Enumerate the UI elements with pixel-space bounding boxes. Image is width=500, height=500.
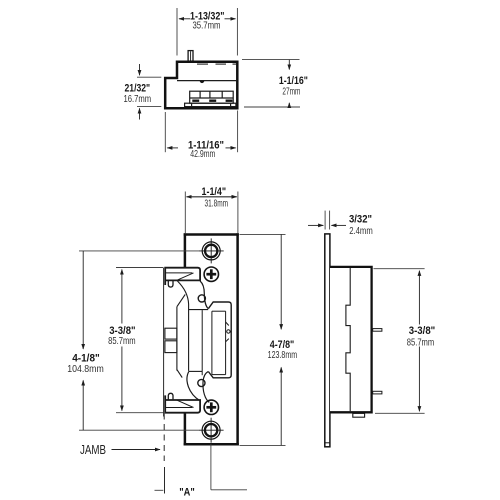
dim 3/32 extension lines xyxy=(325,211,330,230)
dim A line segments xyxy=(155,489,248,492)
bottom horn curve right xyxy=(203,372,209,403)
top horn curve right xyxy=(200,281,208,309)
dim 1-1/4 extension lines xyxy=(185,192,238,234)
top view bump on inner line xyxy=(200,81,205,83)
svg-text:42.9mm: 42.9mm xyxy=(190,149,215,160)
tabs xyxy=(165,328,177,339)
svg-text:123.8mm: 123.8mm xyxy=(268,350,298,361)
top view body outline xyxy=(165,62,237,109)
dim 1-1/4 line with arrows xyxy=(187,196,237,198)
dim 3-3/8 left extension lines xyxy=(116,268,164,413)
top outer screw xyxy=(199,238,224,263)
JAMB arrow xyxy=(112,449,161,451)
dim 3-3/8 side extension lines xyxy=(374,269,425,414)
svg-text:"A": "A" xyxy=(179,487,195,499)
jamb solid lower line xyxy=(164,467,166,494)
svg-text:3-3/8": 3-3/8" xyxy=(409,325,436,337)
latch notch details xyxy=(226,322,229,342)
top horn curve left xyxy=(177,281,209,402)
side body box xyxy=(330,267,372,412)
top view inner step line xyxy=(177,80,236,82)
faceplate xyxy=(185,235,238,445)
jamb dashed centerline xyxy=(163,414,165,462)
svg-text:1-1/4": 1-1/4" xyxy=(202,186,227,198)
svg-text:35.7mm: 35.7mm xyxy=(193,21,221,32)
svg-text:3/32": 3/32" xyxy=(349,214,372,226)
svg-text:16.7mm: 16.7mm xyxy=(124,94,152,105)
top column chamfer xyxy=(177,294,185,306)
dim 1-13/32 extension lines xyxy=(177,8,237,56)
dim 1-13/32 arrows xyxy=(179,18,236,20)
top view pin xyxy=(188,51,193,62)
dim 21/32 arrows xyxy=(139,64,141,120)
side faceplate bottom tip line xyxy=(325,442,330,444)
bottom lip (mirror of top lip) xyxy=(165,393,200,412)
side body stepped inner line xyxy=(346,268,350,411)
dim 1-1/16 extension lines xyxy=(242,60,300,107)
top latch circle xyxy=(198,295,205,302)
top lip group xyxy=(165,268,200,287)
dim 4-7/8 line and arrows (flank text) xyxy=(280,234,282,445)
keeper face lines xyxy=(225,311,227,374)
bottom inner screw xyxy=(204,400,218,414)
keeper outline xyxy=(208,302,231,378)
bottom latch circle xyxy=(198,379,205,386)
dim 3-3/8 left line and arrows xyxy=(121,270,123,411)
side pin upper xyxy=(373,329,382,332)
keeper left long line xyxy=(201,310,203,375)
dim 3-3/8 side line and arrows xyxy=(418,271,420,412)
top view base plate xyxy=(185,103,236,106)
top cavity floor xyxy=(189,309,209,311)
svg-text:104.8mm: 104.8mm xyxy=(67,364,104,375)
side bottom tab xyxy=(353,413,365,417)
dim 1-11/16 extension lines xyxy=(165,111,237,153)
top inner screw xyxy=(204,267,218,281)
bottom cavity floor xyxy=(189,370,203,372)
svg-text:31.8mm: 31.8mm xyxy=(205,198,229,209)
dim 1-11/16 arrows xyxy=(167,147,236,149)
svg-text:27mm: 27mm xyxy=(282,86,300,97)
top view keeper block xyxy=(190,91,234,103)
front body left edge xyxy=(163,268,165,417)
svg-text:4-1/8": 4-1/8" xyxy=(72,352,100,364)
svg-text:85.7mm: 85.7mm xyxy=(108,336,136,347)
side pin lower xyxy=(373,391,382,394)
dim 1-1/16 arrows xyxy=(288,60,290,107)
top view hidden dashes under top edge xyxy=(197,63,236,65)
dim 3/32 arrows xyxy=(308,224,346,226)
dim 21/32 extension lines xyxy=(137,77,161,106)
svg-text:JAMB: JAMB xyxy=(80,443,106,457)
dim 4-7/8 extension lines xyxy=(240,234,286,445)
dim 4-1/8 extension lines xyxy=(79,251,199,430)
top view keeper thick dashes xyxy=(192,99,232,101)
bottom horn big curve xyxy=(187,372,200,401)
svg-text:85.7mm: 85.7mm xyxy=(407,337,435,348)
svg-text:21/32": 21/32" xyxy=(125,83,151,95)
svg-text:2.4mm: 2.4mm xyxy=(349,226,373,237)
bottom column chamfer xyxy=(177,370,182,378)
middle column xyxy=(165,302,231,378)
screw centerline to A xyxy=(210,444,212,490)
bottom outer screw xyxy=(199,418,224,443)
side faceplate bar xyxy=(325,234,330,447)
svg-text:1-1/16": 1-1/16" xyxy=(279,75,308,87)
dim 4-1/8 line and arrows (flank text) xyxy=(82,251,84,430)
